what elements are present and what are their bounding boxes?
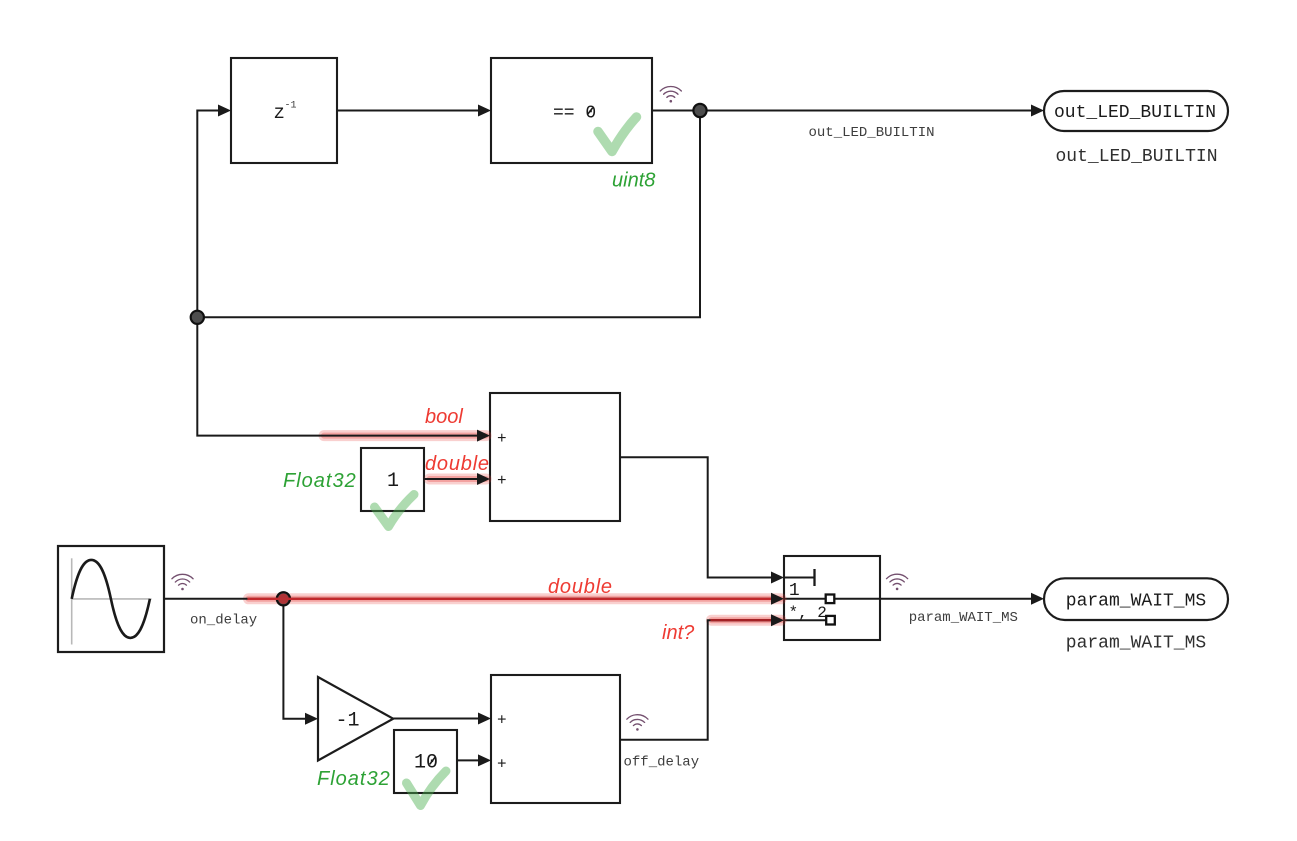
svg-text:bool: bool — [425, 406, 463, 428]
wire sum U1 output to switch input 1 — [620, 457, 771, 577]
svg-text:param_WAIT_MS: param_WAIT_MS — [909, 610, 1018, 626]
arrowhead into z^-1 — [218, 105, 231, 117]
outport param_WAIT_MS — [1044, 578, 1228, 620]
arrowhead into == 0 — [478, 105, 491, 117]
gain block -1 — [318, 677, 393, 761]
node A junction at == 0 output — [693, 104, 706, 117]
svg-text:double: double — [425, 453, 490, 475]
highlight halo on long double wire — [249, 593, 782, 604]
red overlay on node C — [278, 594, 288, 604]
wifi icon at sum U2 output — [627, 715, 648, 731]
wire z^-1 output to == 0 input — [337, 110, 478, 112]
outport out_LED_BUILTIN — [1044, 91, 1228, 131]
green check mark on == 0 block — [598, 117, 637, 152]
green check mark on constant 10 block — [407, 771, 447, 806]
svg-text:*, 2: *, 2 — [789, 604, 827, 622]
relational operator block == 0 — [491, 58, 652, 163]
svg-text:param_WAIT_MS: param_WAIT_MS — [1066, 592, 1206, 612]
wifi icon at == 0 output — [660, 86, 681, 102]
unit delay block z^-1 — [231, 58, 337, 163]
svg-text:out_LED_BUILTIN: out_LED_BUILTIN — [1055, 147, 1217, 167]
svg-text:+: + — [497, 430, 507, 448]
svg-text:double: double — [548, 576, 613, 598]
svg-text:Float32: Float32 — [317, 768, 391, 790]
arrowhead into sum U2 input 2 — [478, 754, 491, 766]
svg-text:off_delay: off_delay — [624, 755, 700, 771]
constant block value 1 — [361, 448, 424, 511]
highlight halo on bool wire — [324, 430, 486, 441]
svg-text:+: + — [497, 472, 507, 490]
wire branch from node C down to gain input — [283, 599, 305, 719]
wire constant 10 to sum U2 second input — [457, 759, 478, 761]
arrowhead into outport param_WAIT_MS — [1031, 593, 1044, 605]
node C junction on on_delay wire — [277, 592, 290, 605]
wire sum U2 output off_delay to switch input 3 — [620, 620, 771, 740]
svg-text:1: 1 — [789, 581, 800, 601]
arrowhead into switch input 2 — [771, 593, 784, 605]
wire constant 1 to sum U1 second input — [424, 478, 477, 480]
wire sine output on_delay to switch input 2 — [164, 598, 771, 600]
wire feedback branch from node A down and back to z^-1 input — [197, 111, 700, 318]
arrowhead into sum U2 input 1 — [478, 713, 491, 725]
sum block U1 (top adder) — [490, 393, 620, 521]
arrowhead into gain — [305, 713, 318, 725]
red core of long double wire — [249, 598, 778, 600]
svg-text:-1: -1 — [285, 101, 297, 112]
svg-text:int?: int? — [662, 622, 695, 644]
green check mark on constant 1 block — [375, 495, 415, 527]
svg-text:10: 10 — [414, 752, 438, 775]
svg-text:-1: -1 — [335, 710, 359, 733]
svg-text:on_delay: on_delay — [190, 613, 257, 629]
wifi icon at sine output — [172, 574, 193, 590]
svg-text:param_WAIT_MS: param_WAIT_MS — [1066, 634, 1206, 654]
highlight halo on double wire from constant 1 — [430, 474, 487, 485]
wire bool signal from node B to sum U1 first input — [197, 317, 477, 435]
arrowhead into sum U1 input 2 — [477, 473, 490, 485]
highlight halo on int? wire — [712, 615, 782, 626]
sine wave source block — [58, 546, 164, 652]
arrowhead into switch input 1 — [771, 572, 784, 584]
svg-text:+: + — [497, 712, 507, 730]
svg-text:1: 1 — [387, 470, 399, 493]
wifi icon at switch output — [887, 574, 908, 590]
red core of int? wire — [712, 619, 778, 621]
svg-text:+: + — [497, 756, 507, 774]
svg-text:Float32: Float32 — [283, 470, 357, 492]
wire == 0 output to outport out_LED_BUILTIN — [652, 110, 1031, 112]
svg-text:uint8: uint8 — [612, 170, 655, 192]
svg-text:out_LED_BUILTIN: out_LED_BUILTIN — [1054, 103, 1216, 123]
switch block — [784, 556, 880, 640]
svg-text:== 0: == 0 — [553, 104, 596, 124]
arrowhead into outport out_LED_BUILTIN — [1031, 105, 1044, 117]
wire gain output to sum U2 first input — [393, 718, 478, 720]
svg-text:out_LED_BUILTIN: out_LED_BUILTIN — [808, 125, 934, 141]
constant block value 10 — [394, 730, 457, 793]
sum block U2 (bottom adder) — [491, 675, 620, 803]
wire switch output to outport param_WAIT_MS — [880, 598, 1031, 600]
arrowhead into switch input 3 — [771, 614, 784, 626]
arrowhead into sum U1 input 1 — [477, 430, 490, 442]
svg-text:z: z — [274, 102, 285, 124]
node B junction on feedback wire — [191, 311, 204, 324]
